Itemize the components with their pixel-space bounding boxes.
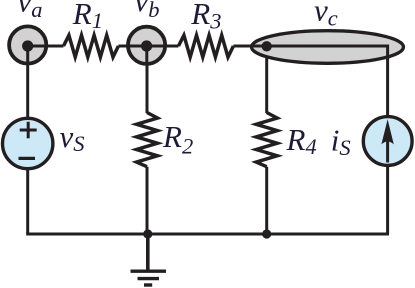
wire: R1 to vb: [118, 45, 146, 48]
node dot vb: [141, 40, 152, 51]
wire: vc branch vertical (vc dot to R4 to bottom): [265, 46, 268, 113]
wire: right branch vertical (vc to is to bottom): [386, 46, 389, 234]
node va (circle): [9, 0, 46, 64]
wire: vb branch vertical (vb to R2 to bottom): [146, 46, 149, 113]
junction dot: R2 branch at bottom rail: [143, 229, 152, 238]
wire: R3 to vc ellipse: [233, 45, 256, 48]
node dot va: [22, 40, 33, 51]
wire: vb stub horizontal through node: [128, 45, 166, 48]
node vc (ellipse): [252, 0, 404, 63]
svg-text:va: va: [18, 0, 43, 22]
wire: inside vc ellipse to right branch: [253, 46, 388, 60]
resistor R2: [137, 113, 194, 167]
wire: R2 to bottom rail: [146, 167, 149, 234]
svg-text:iS: iS: [331, 123, 351, 161]
resistor R3: [179, 0, 234, 57]
wire: left branch vertical (va to vs to bottom): [26, 46, 29, 234]
resistor R4: [256, 113, 316, 167]
node vb (circle): [128, 0, 165, 64]
wire: bottom horizontal rail: [26, 233, 389, 236]
svg-text:R3: R3: [190, 0, 221, 34]
node dot on vc: [262, 41, 272, 51]
svg-text:vc: vc: [314, 0, 338, 31]
resistor R1: [64, 0, 119, 57]
ground: [131, 234, 167, 285]
svg-text:R2: R2: [162, 119, 193, 159]
wire: vb to R3: [147, 45, 179, 48]
junction dot: R4 branch at bottom rail: [262, 229, 271, 238]
svg-text:R1: R1: [72, 0, 103, 33]
svg-text:vb: vb: [135, 0, 160, 22]
wire: va to R1: [28, 45, 64, 48]
wire: R4 to bottom rail: [265, 167, 268, 234]
voltage source vS: [3, 118, 85, 168]
svg-text:R4: R4: [286, 122, 317, 159]
wire: va dot stub right: [28, 45, 47, 48]
wire: vb stub down: [145, 46, 148, 64]
wire: va dot stub down: [26, 46, 29, 64]
svg-text:vS: vS: [60, 119, 85, 156]
current source iS: [331, 117, 412, 166]
